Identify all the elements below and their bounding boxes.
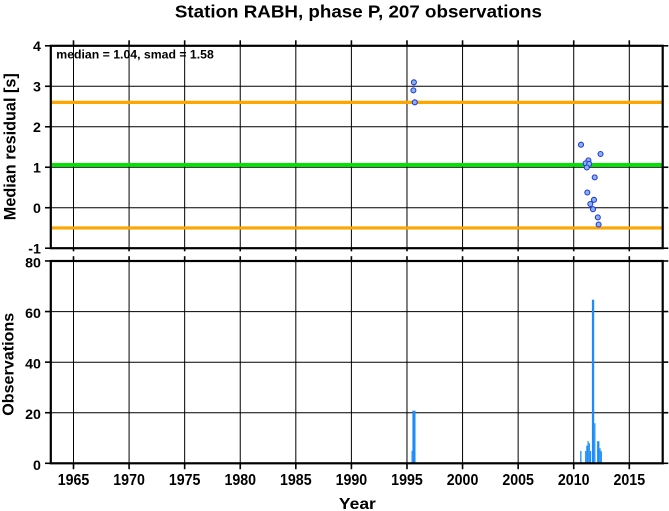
bottom panel left tick y=0 (45, 462, 51, 464)
svg-text:1970: 1970 (113, 471, 145, 489)
top panel right tick y=2 (663, 126, 669, 128)
bottom panel vertical gridline 1985 (295, 261, 297, 463)
top panel vertical gridline 1965 (73, 46, 75, 248)
upper orange line median+smad (51, 101, 663, 104)
histogram bar 1 (411, 451, 414, 464)
histogram bar 10 (594, 423, 595, 463)
bottom panel frame (51, 261, 663, 463)
bottom panel bottom tick 2010 (573, 463, 575, 469)
bottom panel top tick 1985 (295, 256, 297, 261)
top panel bottom tick 1975 (184, 248, 186, 251)
histogram bar 6 (588, 441, 589, 463)
top panel vertical gridline 1985 (295, 46, 297, 248)
top panel vertical gridline 1980 (239, 46, 241, 248)
scatter point 2 (411, 88, 416, 93)
bottom panel left tick y=60 (45, 311, 51, 313)
top panel horizontal gridline y=2 (51, 126, 663, 128)
top panel vertical gridline 1970 (128, 46, 130, 248)
top panel bottom tick 2010 (573, 248, 575, 251)
scatter point 5 (598, 152, 603, 157)
svg-text:2: 2 (33, 120, 41, 136)
top panel horizontal gridline y=3 (51, 85, 663, 87)
top panel top tick 1990 (350, 40, 352, 46)
svg-text:0: 0 (33, 458, 41, 474)
bottom panel bottom tick 1970 (128, 463, 130, 469)
top panel bottom tick 1980 (239, 248, 241, 251)
top panel right tick y=0 (663, 207, 669, 209)
scatter point 4 (579, 142, 584, 147)
top panel right tick y=3 (663, 85, 669, 87)
histogram bar 8 (590, 451, 591, 463)
top panel bottom tick 2015 (628, 248, 630, 251)
bottom panel horizontal gridline y=60 (51, 311, 663, 313)
top panel left tick y=4 (45, 45, 51, 47)
histogram bar 13 (601, 451, 602, 463)
svg-text:80: 80 (25, 255, 41, 271)
bottom panel top tick 1975 (184, 256, 186, 261)
histogram bar 5 (586, 446, 587, 464)
top panel top tick 2000 (462, 40, 464, 46)
svg-text:1990: 1990 (336, 471, 368, 489)
top panel bottom tick 1985 (295, 248, 297, 251)
svg-text:1980: 1980 (224, 471, 256, 489)
bottom panel left tick y=20 (45, 412, 51, 414)
bottom panel top tick 2015 (628, 256, 630, 261)
top panel vertical gridline 2015 (628, 46, 630, 248)
top panel left tick y=0 (45, 207, 51, 209)
top panel vertical gridline 2010 (573, 46, 575, 248)
scatter point 3 (412, 100, 417, 105)
svg-text:1975: 1975 (169, 471, 201, 489)
bottom panel top tick 2000 (462, 256, 464, 261)
bottom panel bottom tick 1965 (73, 463, 75, 469)
scatter point 6 (586, 158, 591, 163)
svg-text:4: 4 (33, 39, 41, 55)
svg-text:60: 60 (25, 306, 41, 322)
top panel bottom tick 2000 (462, 248, 464, 251)
top panel top tick 2010 (573, 40, 575, 46)
bottom panel right tick y=40 (663, 361, 669, 363)
top panel left tick y=-1 (45, 247, 51, 249)
bottom panel bottom tick 1985 (295, 463, 297, 469)
bottom panel bottom tick 1995 (406, 463, 408, 469)
lower orange line median-smad (51, 226, 663, 229)
top panel bottom tick 1995 (406, 248, 408, 251)
svg-text:0: 0 (33, 201, 41, 217)
svg-text:2005: 2005 (502, 471, 534, 489)
bottom panel top tick 2005 (517, 256, 519, 261)
scatter point 11 (585, 190, 590, 195)
bottom panel vertical gridline 2015 (628, 261, 630, 463)
top panel vertical gridline 1990 (350, 46, 352, 248)
scatter point 15 (595, 215, 600, 220)
svg-text:1965: 1965 (58, 471, 90, 489)
scatter point 9 (584, 165, 589, 170)
bottom panel vertical gridline 2005 (517, 261, 519, 463)
scatter point 8 (587, 161, 592, 166)
svg-text:Observations: Observations (0, 313, 17, 416)
scatter point 7 (583, 161, 588, 166)
bottom panel top tick 2010 (573, 256, 575, 261)
svg-text:Station RABH, phase P, 207 obs: Station RABH, phase P, 207 observations (175, 2, 542, 22)
top panel vertical gridline 2000 (462, 46, 464, 248)
bottom panel right tick y=60 (663, 311, 669, 313)
bottom panel right tick y=80 (663, 260, 669, 262)
bottom panel vertical gridline 1980 (239, 261, 241, 463)
bottom panel bottom tick 1980 (239, 463, 241, 469)
top panel top tick 1995 (406, 40, 408, 46)
bottom panel top tick 1970 (128, 256, 130, 261)
svg-text:1985: 1985 (280, 471, 312, 489)
bottom panel top tick 1990 (350, 256, 352, 261)
histogram bar 12 (599, 448, 600, 463)
histogram bar 7 (589, 443, 590, 463)
top panel vertical gridline 1975 (184, 46, 186, 248)
top panel bottom tick 2005 (517, 248, 519, 251)
top panel vertical gridline 1995 (406, 46, 408, 248)
scatter point 13 (588, 202, 593, 207)
svg-text:1: 1 (33, 160, 41, 176)
bottom panel vertical gridline 1975 (184, 261, 186, 463)
top panel horizontal gridline y=0 (51, 207, 663, 209)
bottom panel left tick y=80 (45, 260, 51, 262)
histogram bar 9 (592, 300, 594, 464)
svg-text:2010: 2010 (558, 471, 590, 489)
scatter point 16 (596, 222, 601, 227)
top panel right tick y=1 (663, 166, 669, 168)
top panel left tick y=1 (45, 166, 51, 168)
top panel frame (51, 46, 663, 248)
svg-text:40: 40 (25, 357, 41, 373)
scatter point 12 (592, 197, 597, 202)
top panel bottom tick 1970 (128, 248, 130, 251)
bottom panel top tick 1965 (73, 256, 75, 261)
svg-text:Median residual [s]: Median residual [s] (1, 73, 20, 220)
bottom panel horizontal gridline y=20 (51, 412, 663, 414)
top panel right tick y=4 (663, 45, 669, 47)
histogram bar 11 (597, 441, 599, 463)
bottom panel bottom tick 1990 (350, 463, 352, 469)
bottom panel bottom tick 2015 (628, 463, 630, 469)
top panel horizontal gridline y=1 (51, 166, 663, 168)
top panel right tick y=-1 (663, 247, 669, 249)
bottom panel vertical gridline 1965 (73, 261, 75, 463)
scatter point 10 (592, 175, 597, 180)
scatter point 1 (411, 80, 416, 85)
svg-text:2000: 2000 (447, 471, 479, 489)
bottom panel vertical gridline 1970 (128, 261, 130, 463)
top panel top tick 1980 (239, 40, 241, 46)
svg-text:median = 1.04, smad = 1.58: median = 1.04, smad = 1.58 (56, 48, 214, 62)
bottom panel vertical gridline 2010 (573, 261, 575, 463)
top panel top tick 2015 (628, 40, 630, 46)
svg-text:20: 20 (25, 407, 41, 423)
bottom panel horizontal gridline y=40 (51, 361, 663, 363)
histogram bar 2 (412, 411, 415, 464)
svg-text:Year: Year (339, 496, 376, 511)
top panel top tick 1985 (295, 40, 297, 46)
top panel bottom tick 1965 (73, 248, 75, 251)
top panel top tick 1975 (184, 40, 186, 46)
bottom panel vertical gridline 1995 (406, 261, 408, 463)
top panel top tick 1970 (128, 40, 130, 46)
top panel left tick y=3 (45, 85, 51, 87)
top panel top tick 1965 (73, 40, 75, 46)
bottom panel top tick 1980 (239, 256, 241, 261)
svg-text:3: 3 (33, 79, 41, 95)
top panel vertical gridline 2005 (517, 46, 519, 248)
bottom panel top tick 1995 (406, 256, 408, 261)
top panel left tick y=2 (45, 126, 51, 128)
bottom panel vertical gridline 2000 (462, 261, 464, 463)
bottom panel bottom tick 1975 (184, 463, 186, 469)
scatter point 14 (591, 207, 596, 212)
bottom panel right tick y=0 (663, 462, 669, 464)
svg-text:1995: 1995 (391, 471, 423, 489)
green median line (51, 163, 663, 167)
histogram bar 4 (585, 451, 586, 463)
top panel top tick 2005 (517, 40, 519, 46)
bottom panel bottom tick 2005 (517, 463, 519, 469)
bottom panel bottom tick 2000 (462, 463, 464, 469)
svg-text:2015: 2015 (614, 471, 646, 489)
histogram bar 3 (580, 451, 581, 463)
bottom panel right tick y=20 (663, 412, 669, 414)
top panel bottom tick 1990 (350, 248, 352, 251)
bottom panel left tick y=40 (45, 361, 51, 363)
bottom panel vertical gridline 1990 (350, 261, 352, 463)
